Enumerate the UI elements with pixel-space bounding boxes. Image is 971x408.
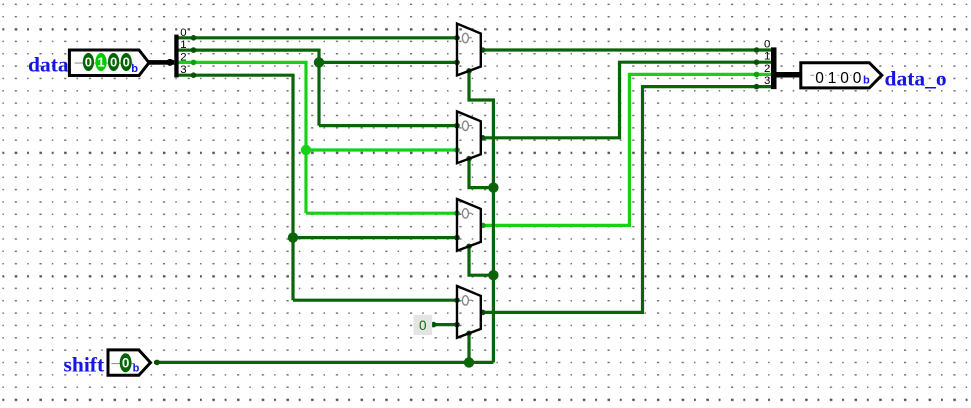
svg-text:0: 0 [180,27,186,39]
svg-text:3: 3 [180,64,186,76]
svg-text:1: 1 [764,51,770,63]
svg-text:0: 0 [764,38,770,50]
svg-text:0: 0 [122,356,130,371]
svg-text:data: data [28,53,69,77]
svg-text:b: b [133,362,140,374]
svg-text:data_o: data_o [885,67,947,91]
svg-text:3: 3 [764,75,770,87]
svg-text:1: 1 [97,55,104,70]
svg-text:2: 2 [764,63,770,75]
svg-text:0: 0 [840,70,849,87]
svg-text:0: 0 [419,318,427,333]
svg-text:0: 0 [85,55,92,70]
svg-text:2: 2 [180,52,186,64]
svg-text:0: 0 [853,70,862,87]
svg-text:0: 0 [110,55,117,70]
svg-text:b: b [863,74,870,86]
svg-text:0: 0 [815,70,824,87]
svg-text:shift: shift [64,353,105,377]
svg-text:b: b [131,63,138,75]
svg-text:1: 1 [828,70,837,87]
svg-text:1: 1 [180,39,186,51]
svg-text:0: 0 [123,55,130,70]
